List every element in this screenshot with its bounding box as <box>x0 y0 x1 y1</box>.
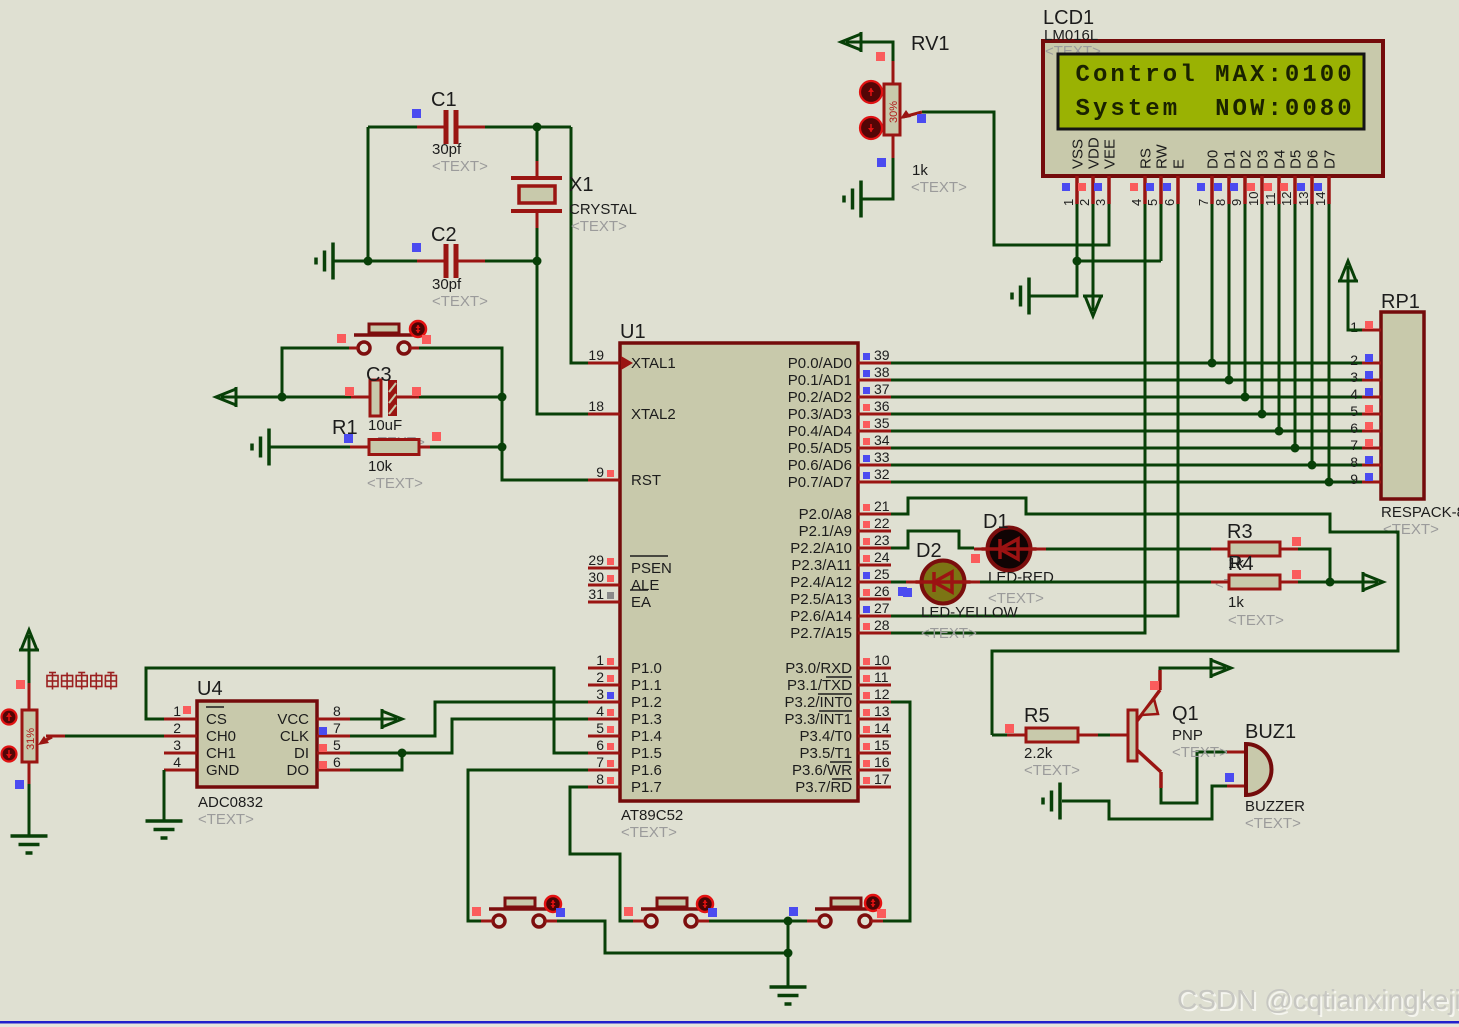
svg-text:6: 6 <box>333 754 341 770</box>
svg-text:33: 33 <box>874 449 890 465</box>
wire XTAL1 net <box>571 127 588 363</box>
svg-text:P1.1: P1.1 <box>631 677 662 694</box>
state square reset left <box>337 334 346 343</box>
svg-text:D1: D1 <box>983 511 1009 533</box>
svg-text:D0: D0 <box>1205 150 1222 169</box>
ground R1 (sideways) <box>252 429 269 466</box>
svg-text:<TEXT>: <TEXT> <box>432 293 488 310</box>
svg-text:CLK: CLK <box>280 728 309 745</box>
svg-text:<TEXT>: <TEXT> <box>911 179 967 196</box>
svg-text:r: r <box>1145 62 1159 89</box>
svg-text:<TEXT>: <TEXT> <box>1228 612 1284 629</box>
svg-text:D7: D7 <box>1322 150 1339 169</box>
svg-text:7: 7 <box>333 720 341 736</box>
svg-text:Q1: Q1 <box>1172 703 1199 725</box>
state square sensor bottom <box>15 780 24 789</box>
svg-text:P2.7/A15: P2.7/A15 <box>790 625 852 642</box>
chip U1 body <box>620 343 858 801</box>
ground buttons (upright) <box>770 987 807 1004</box>
node R3/R4 junction <box>1326 578 1335 587</box>
capacitor C2 lead right <box>458 260 485 263</box>
state square P2.5 extra <box>898 587 907 596</box>
button SW4 (K3) <box>807 898 883 927</box>
ground LCD VSS (sideways) <box>1012 278 1029 315</box>
ground sensor (upright) <box>11 836 48 853</box>
svg-text:RESPACK-8: RESPACK-8 <box>1381 504 1459 521</box>
state square button3 right <box>877 909 886 918</box>
capacitor C1 lead right <box>458 126 485 129</box>
state square C3 left <box>345 387 354 396</box>
state square Q1 emitter <box>1150 681 1159 690</box>
wire button3 to P3.2 <box>883 702 910 921</box>
svg-text:4: 4 <box>1129 199 1144 206</box>
chip U4 pins CS CH0 CH1 GND VCC CLK DI DO <box>164 703 350 779</box>
svg-text:29: 29 <box>588 552 604 568</box>
svg-text:P0.1/AD1: P0.1/AD1 <box>788 372 852 389</box>
wire BUZ1 bottom to ground <box>1062 786 1227 819</box>
wire RV1 bottom to ground <box>861 158 893 199</box>
svg-text:11: 11 <box>1263 193 1278 207</box>
wire R4 right to power <box>1298 581 1363 584</box>
sensor pot body <box>22 710 37 762</box>
diode D1 lead left <box>974 548 988 551</box>
svg-text:6: 6 <box>596 737 604 753</box>
resistor R5 <box>1026 728 1078 742</box>
wire R5 to Q1 base <box>1098 734 1110 737</box>
svg-text:<TEXT>: <TEXT> <box>921 625 977 642</box>
svg-text:28: 28 <box>874 617 890 633</box>
node C2/X1 junction <box>533 257 542 266</box>
svg-text:23: 23 <box>874 532 890 548</box>
resistor R5 lead right <box>1078 734 1098 737</box>
sensor pot bottom lead <box>28 762 31 785</box>
svg-text:2: 2 <box>1350 352 1358 368</box>
svg-text:C: C <box>1076 62 1090 89</box>
wire ground bus vertical <box>787 921 790 986</box>
svg-text:P3.5/T1: P3.5/T1 <box>799 745 852 762</box>
ground U4 (upright) <box>146 821 183 838</box>
resistor R3 <box>1229 542 1280 556</box>
svg-text:<TEXT>: <TEXT> <box>1172 744 1228 761</box>
capacitor C2 lead left <box>417 260 444 263</box>
svg-text:5: 5 <box>596 720 604 736</box>
svg-text:4: 4 <box>596 703 604 719</box>
svg-text:P0.5/AD5: P0.5/AD5 <box>788 440 852 457</box>
wire LCD E column <box>891 204 1178 616</box>
LCD1 pins VSS VDD VEE RS RW E D0-D7 <box>1061 137 1339 206</box>
chip U4 body <box>197 701 317 787</box>
svg-text:30: 30 <box>588 569 604 585</box>
svg-text:0: 0 <box>1285 62 1299 89</box>
wire P0 bus to RP1 <box>891 363 1362 482</box>
wire LCD VSS down <box>1076 204 1079 261</box>
svg-text:2: 2 <box>173 720 181 736</box>
wire C1 row <box>368 126 417 129</box>
svg-text:7: 7 <box>596 754 604 770</box>
svg-text:<TEXT>: <TEXT> <box>367 475 423 492</box>
state square button2 right <box>708 908 717 917</box>
svg-text:5: 5 <box>1350 403 1358 419</box>
svg-text:N: N <box>1215 96 1229 123</box>
wire RP1 pin1 to power <box>1348 281 1362 330</box>
node C3/RST junction <box>498 393 507 402</box>
node ground bus bottom junction <box>784 949 793 958</box>
svg-text:14: 14 <box>1313 192 1328 206</box>
svg-text:P2.1/A9: P2.1/A9 <box>799 523 852 540</box>
power arrow right R3R4 <box>1363 572 1383 592</box>
svg-text:0: 0 <box>1285 96 1299 123</box>
svg-text:6: 6 <box>1350 420 1358 436</box>
potentiometer RV1 bottom lead <box>892 135 895 158</box>
svg-text:P1.7: P1.7 <box>631 779 662 796</box>
wire C2 row left <box>333 260 417 263</box>
svg-text:15: 15 <box>874 737 890 753</box>
svg-text:9: 9 <box>1229 199 1244 206</box>
resistor R1 <box>369 440 419 455</box>
svg-text:<TEXT>: <TEXT> <box>1024 762 1080 779</box>
label sensor (photoelectric glyphs) <box>47 673 116 690</box>
ground C2 (sideways) <box>316 243 333 280</box>
svg-text:l: l <box>1180 62 1194 89</box>
svg-text:12: 12 <box>874 686 890 702</box>
capacitor C3 (electrolytic) <box>370 380 397 416</box>
svg-text:P3.6/WR: P3.6/WR <box>792 762 852 779</box>
svg-text:0: 0 <box>1302 96 1316 123</box>
svg-text:P3.3/INT1: P3.3/INT1 <box>784 711 852 728</box>
crystal X1 top lead <box>536 127 539 163</box>
svg-text:1: 1 <box>596 652 604 668</box>
ground BUZ1 (sideways) <box>1043 783 1060 820</box>
resistor R5 lead left <box>992 734 1007 737</box>
svg-text:8: 8 <box>1350 454 1358 470</box>
svg-text:R3: R3 <box>1227 521 1253 543</box>
svg-text:16: 16 <box>874 754 890 770</box>
capacitor C1 <box>444 110 459 144</box>
svg-text:U4: U4 <box>197 678 223 700</box>
svg-text:P0.0/AD0: P0.0/AD0 <box>788 355 852 372</box>
svg-text:P3.4/T0: P3.4/T0 <box>799 728 852 745</box>
svg-text:ALE: ALE <box>631 577 659 594</box>
resistor R4 <box>1229 575 1280 589</box>
svg-text:14: 14 <box>874 720 890 736</box>
svg-text:CRYSTAL: CRYSTAL <box>569 201 637 218</box>
sensor pot top lead <box>28 683 31 710</box>
wire VSS to ground <box>1029 261 1077 296</box>
state square button1 left <box>472 907 481 916</box>
svg-text:<TEXT>: <TEXT> <box>198 811 254 828</box>
svg-text:30%: 30% <box>888 101 900 123</box>
reset button marker <box>410 321 426 337</box>
svg-text:LED-YELLOW: LED-YELLOW <box>921 604 1019 621</box>
svg-text:39: 39 <box>874 347 890 363</box>
svg-text:30pf: 30pf <box>432 276 462 293</box>
svg-text:2.2k: 2.2k <box>1024 745 1053 762</box>
wire RST net <box>502 447 588 480</box>
state square R3 <box>1292 537 1301 546</box>
potentiometer RV1 body <box>884 84 900 135</box>
svg-text:30pf: 30pf <box>432 141 462 158</box>
svg-text:P3.7/RD: P3.7/RD <box>795 779 852 796</box>
svg-text:s: s <box>1110 96 1124 123</box>
svg-text:D2: D2 <box>1238 150 1255 169</box>
node VSS junction <box>1073 257 1082 266</box>
resistor R1 lead right <box>419 446 430 449</box>
svg-text:3: 3 <box>173 737 181 753</box>
bottom window edge <box>0 1021 1459 1024</box>
svg-text:10: 10 <box>874 652 890 668</box>
wire LCD VEE to RV1 wiper <box>922 112 1109 245</box>
svg-text:36: 36 <box>874 398 890 414</box>
svg-text::: : <box>1267 62 1281 89</box>
wire R3 right <box>1298 549 1330 582</box>
ground RV1 (sideways) <box>844 181 861 218</box>
wire LCD RW down <box>1160 204 1163 261</box>
svg-text:ADC0832: ADC0832 <box>198 794 263 811</box>
svg-text:C2: C2 <box>431 224 457 246</box>
svg-text:m: m <box>1163 96 1177 123</box>
svg-text:S: S <box>1076 96 1090 123</box>
svg-text:<TEXT>: <TEXT> <box>621 824 677 841</box>
svg-text:9: 9 <box>1350 471 1358 487</box>
svg-text:3: 3 <box>596 686 604 702</box>
svg-text:25: 25 <box>874 566 890 582</box>
node button/C3 junction <box>278 393 287 402</box>
wire C3 left row <box>235 396 351 399</box>
diode D1 lead right <box>1030 548 1046 551</box>
resistor R1 lead left <box>350 446 369 449</box>
button SW3 marker <box>697 896 713 912</box>
LED D2 (yellow) <box>916 561 971 604</box>
svg-text:X: X <box>1250 62 1265 89</box>
svg-text:C1: C1 <box>431 89 457 111</box>
svg-text:D1: D1 <box>1222 150 1239 169</box>
node ground bus top junction <box>784 917 793 926</box>
svg-text:CSDN @cqtianxingkeji: CSDN @cqtianxingkeji <box>1177 984 1459 1015</box>
svg-text:e: e <box>1145 96 1159 123</box>
svg-text:VCC: VCC <box>277 711 309 728</box>
svg-text:RP1: RP1 <box>1381 291 1420 313</box>
svg-text:t: t <box>1128 62 1142 89</box>
wire LCD RS column <box>891 204 1145 633</box>
respack RP1 body <box>1381 312 1424 499</box>
state square R1 right <box>432 432 441 441</box>
sensor pot down button <box>2 747 17 762</box>
wire C1 to crystal node <box>485 126 571 129</box>
svg-text:CH0: CH0 <box>206 728 236 745</box>
state square D2 <box>903 588 912 597</box>
power arrow right U4 VCC <box>382 709 402 729</box>
resistor R3 lead right <box>1280 548 1298 551</box>
wire U4 CLK to P1.2 <box>350 702 588 736</box>
svg-text:3: 3 <box>1093 199 1108 206</box>
chip U1 left pins (XTAL1,XTAL2,RST,PSEN,ALE,EA,P1.0-P1.7) <box>588 347 676 796</box>
capacitor C1 lead left <box>417 126 444 129</box>
svg-text:26: 26 <box>874 583 890 599</box>
button SW2 (K1) <box>481 898 557 927</box>
potentiometer RV1 top lead <box>892 61 895 84</box>
wire sensor bottom to ground <box>28 784 31 835</box>
wire button2 right to ground bus <box>709 920 788 923</box>
power arrow RV1 (left) <box>841 32 861 52</box>
wire button1 right to ground bus <box>557 921 788 953</box>
svg-text:P2.3/A11: P2.3/A11 <box>791 557 852 574</box>
svg-text:13: 13 <box>874 703 890 719</box>
svg-text:EA: EA <box>631 594 651 611</box>
state square RV1 bottom <box>877 158 886 167</box>
state square button2 left <box>624 907 633 916</box>
svg-text:PSEN: PSEN <box>631 560 672 577</box>
svg-text:22: 22 <box>874 515 890 531</box>
wire U4 DI to P1.3 <box>350 719 588 753</box>
svg-text:P0.3/AD3: P0.3/AD3 <box>788 406 852 423</box>
svg-text:5: 5 <box>333 737 341 753</box>
svg-text:27: 27 <box>874 600 890 616</box>
state square U4 pin5 <box>319 744 327 752</box>
svg-text:DO: DO <box>287 762 310 779</box>
svg-text:3: 3 <box>1350 369 1358 385</box>
svg-text:4: 4 <box>173 754 181 770</box>
svg-text:D2: D2 <box>916 540 942 562</box>
diode D2 lead right <box>964 581 980 584</box>
wire LCD D0-D7 columns with junctions <box>1208 204 1334 487</box>
svg-text:1k: 1k <box>1228 594 1244 611</box>
svg-text:<TEXT>: <TEXT> <box>1383 521 1439 538</box>
chip U1 right pins (P0,P2,P3) <box>784 347 891 796</box>
node C2/ground junction <box>364 257 373 266</box>
state square D1 <box>971 554 980 563</box>
svg-text:VDD: VDD <box>1086 137 1103 169</box>
svg-text:17: 17 <box>874 771 890 787</box>
svg-text:2: 2 <box>1077 199 1092 206</box>
svg-text:7: 7 <box>1196 199 1211 206</box>
reset button SW1 <box>349 324 419 354</box>
svg-text:CS: CS <box>206 711 227 728</box>
wire P2.0 to R5 net <box>891 498 1398 735</box>
svg-text:t: t <box>1128 96 1142 123</box>
state square button3 left <box>789 907 798 916</box>
node C1/X1 junction <box>533 123 542 132</box>
svg-text:o: o <box>1163 62 1177 89</box>
power arrow up RP1 <box>1338 261 1358 281</box>
svg-text:P3.1/TXD: P3.1/TXD <box>787 677 852 694</box>
svg-text:P1.6: P1.6 <box>631 762 662 779</box>
svg-text:<TEXT>: <TEXT> <box>1245 815 1301 832</box>
svg-text:0: 0 <box>1320 62 1334 89</box>
svg-text:0: 0 <box>1337 96 1351 123</box>
resistor R4 lead right <box>1280 581 1298 584</box>
svg-text:PNP: PNP <box>1172 727 1203 744</box>
svg-text:P2.2/A10: P2.2/A10 <box>790 540 852 557</box>
svg-text:5: 5 <box>1145 199 1160 206</box>
svg-text:AT89C52: AT89C52 <box>621 807 683 824</box>
svg-text:DI: DI <box>294 745 309 762</box>
svg-text:X1: X1 <box>569 174 593 196</box>
svg-text:P1.3: P1.3 <box>631 711 662 728</box>
crystal X1 bottom lead <box>536 213 539 229</box>
svg-text:38: 38 <box>874 364 890 380</box>
wire C3 right <box>419 396 502 399</box>
wire R1 left <box>269 446 350 449</box>
state square U4 pin1 <box>183 706 191 714</box>
wire P2.4 to D2 <box>891 581 908 584</box>
transistor Q1 body <box>1128 710 1137 761</box>
power arrow up sensor <box>19 630 39 650</box>
state square U4 pin7 <box>319 727 327 735</box>
svg-text:<TEXT>: <TEXT> <box>571 218 627 235</box>
state square C1 <box>412 109 421 118</box>
svg-text:VSS: VSS <box>1070 139 1087 169</box>
svg-text:8: 8 <box>1320 96 1334 123</box>
svg-text:XTAL2: XTAL2 <box>631 406 676 423</box>
svg-text:31: 31 <box>588 586 604 602</box>
svg-text:D6: D6 <box>1305 150 1322 169</box>
wire C1 left to C2 left vertical <box>367 127 370 261</box>
wire RV1 top <box>860 42 893 62</box>
svg-text:P3.2/INT0: P3.2/INT0 <box>784 694 852 711</box>
svg-text:P1.2: P1.2 <box>631 694 662 711</box>
svg-text:4: 4 <box>1350 386 1358 402</box>
sensor pot wiper <box>42 737 52 742</box>
svg-text:LM016L: LM016L <box>1044 27 1098 44</box>
transistor Q1 base lead <box>1110 734 1128 737</box>
chip U4 CH1 stub <box>164 752 197 755</box>
state square R4 <box>1292 570 1301 579</box>
svg-text:R5: R5 <box>1024 705 1050 727</box>
wire XTAL2 net <box>537 261 588 414</box>
capacitor C3 lead left <box>351 396 370 399</box>
wire P2.2 to D1 <box>891 531 974 548</box>
svg-text:n: n <box>1110 62 1124 89</box>
svg-text:10k: 10k <box>368 458 393 475</box>
svg-text:XTAL1: XTAL1 <box>631 355 676 372</box>
crystal X1 <box>511 178 562 211</box>
LCD1 screen text <box>1076 62 1352 123</box>
diode D2 lead left <box>906 581 922 584</box>
wire VSS to RW row <box>1077 260 1161 263</box>
svg-text:C3: C3 <box>366 364 392 386</box>
svg-text:BUZ1: BUZ1 <box>1245 721 1296 743</box>
svg-text:R4: R4 <box>1228 553 1254 575</box>
power arrow down VDD <box>1083 296 1103 316</box>
svg-text:P2.0/A8: P2.0/A8 <box>799 506 852 523</box>
svg-text:P1.5: P1.5 <box>631 745 662 762</box>
svg-text:P1.0: P1.0 <box>631 660 662 677</box>
state square C2 <box>412 243 421 252</box>
button SW2 marker <box>545 896 561 912</box>
potentiometer RV1 down button <box>860 117 882 139</box>
svg-text:P2.4/A12: P2.4/A12 <box>790 574 852 591</box>
svg-text:GND: GND <box>206 762 240 779</box>
svg-text:P3.0/RXD: P3.0/RXD <box>785 660 852 677</box>
state square C3 right <box>412 387 421 396</box>
svg-text:1: 1 <box>1350 319 1358 335</box>
svg-text:11: 11 <box>874 669 889 685</box>
svg-text:y: y <box>1093 96 1107 123</box>
state square R1 left <box>344 434 353 443</box>
svg-text:P2.5/A13: P2.5/A13 <box>790 591 852 608</box>
svg-text:BUZZER: BUZZER <box>1245 798 1305 815</box>
svg-text:32: 32 <box>874 466 890 482</box>
svg-text:D4: D4 <box>1272 150 1289 169</box>
wire Q1 emitter to power <box>1160 668 1211 670</box>
wire sensor top <box>28 650 31 684</box>
LCD1 screen <box>1058 54 1364 129</box>
capacitor C2 <box>444 244 459 278</box>
svg-text:VEE: VEE <box>1102 139 1119 169</box>
svg-text:CH1: CH1 <box>206 745 236 762</box>
svg-text:12: 12 <box>1279 192 1294 206</box>
capacitor C3 lead right <box>397 396 419 399</box>
